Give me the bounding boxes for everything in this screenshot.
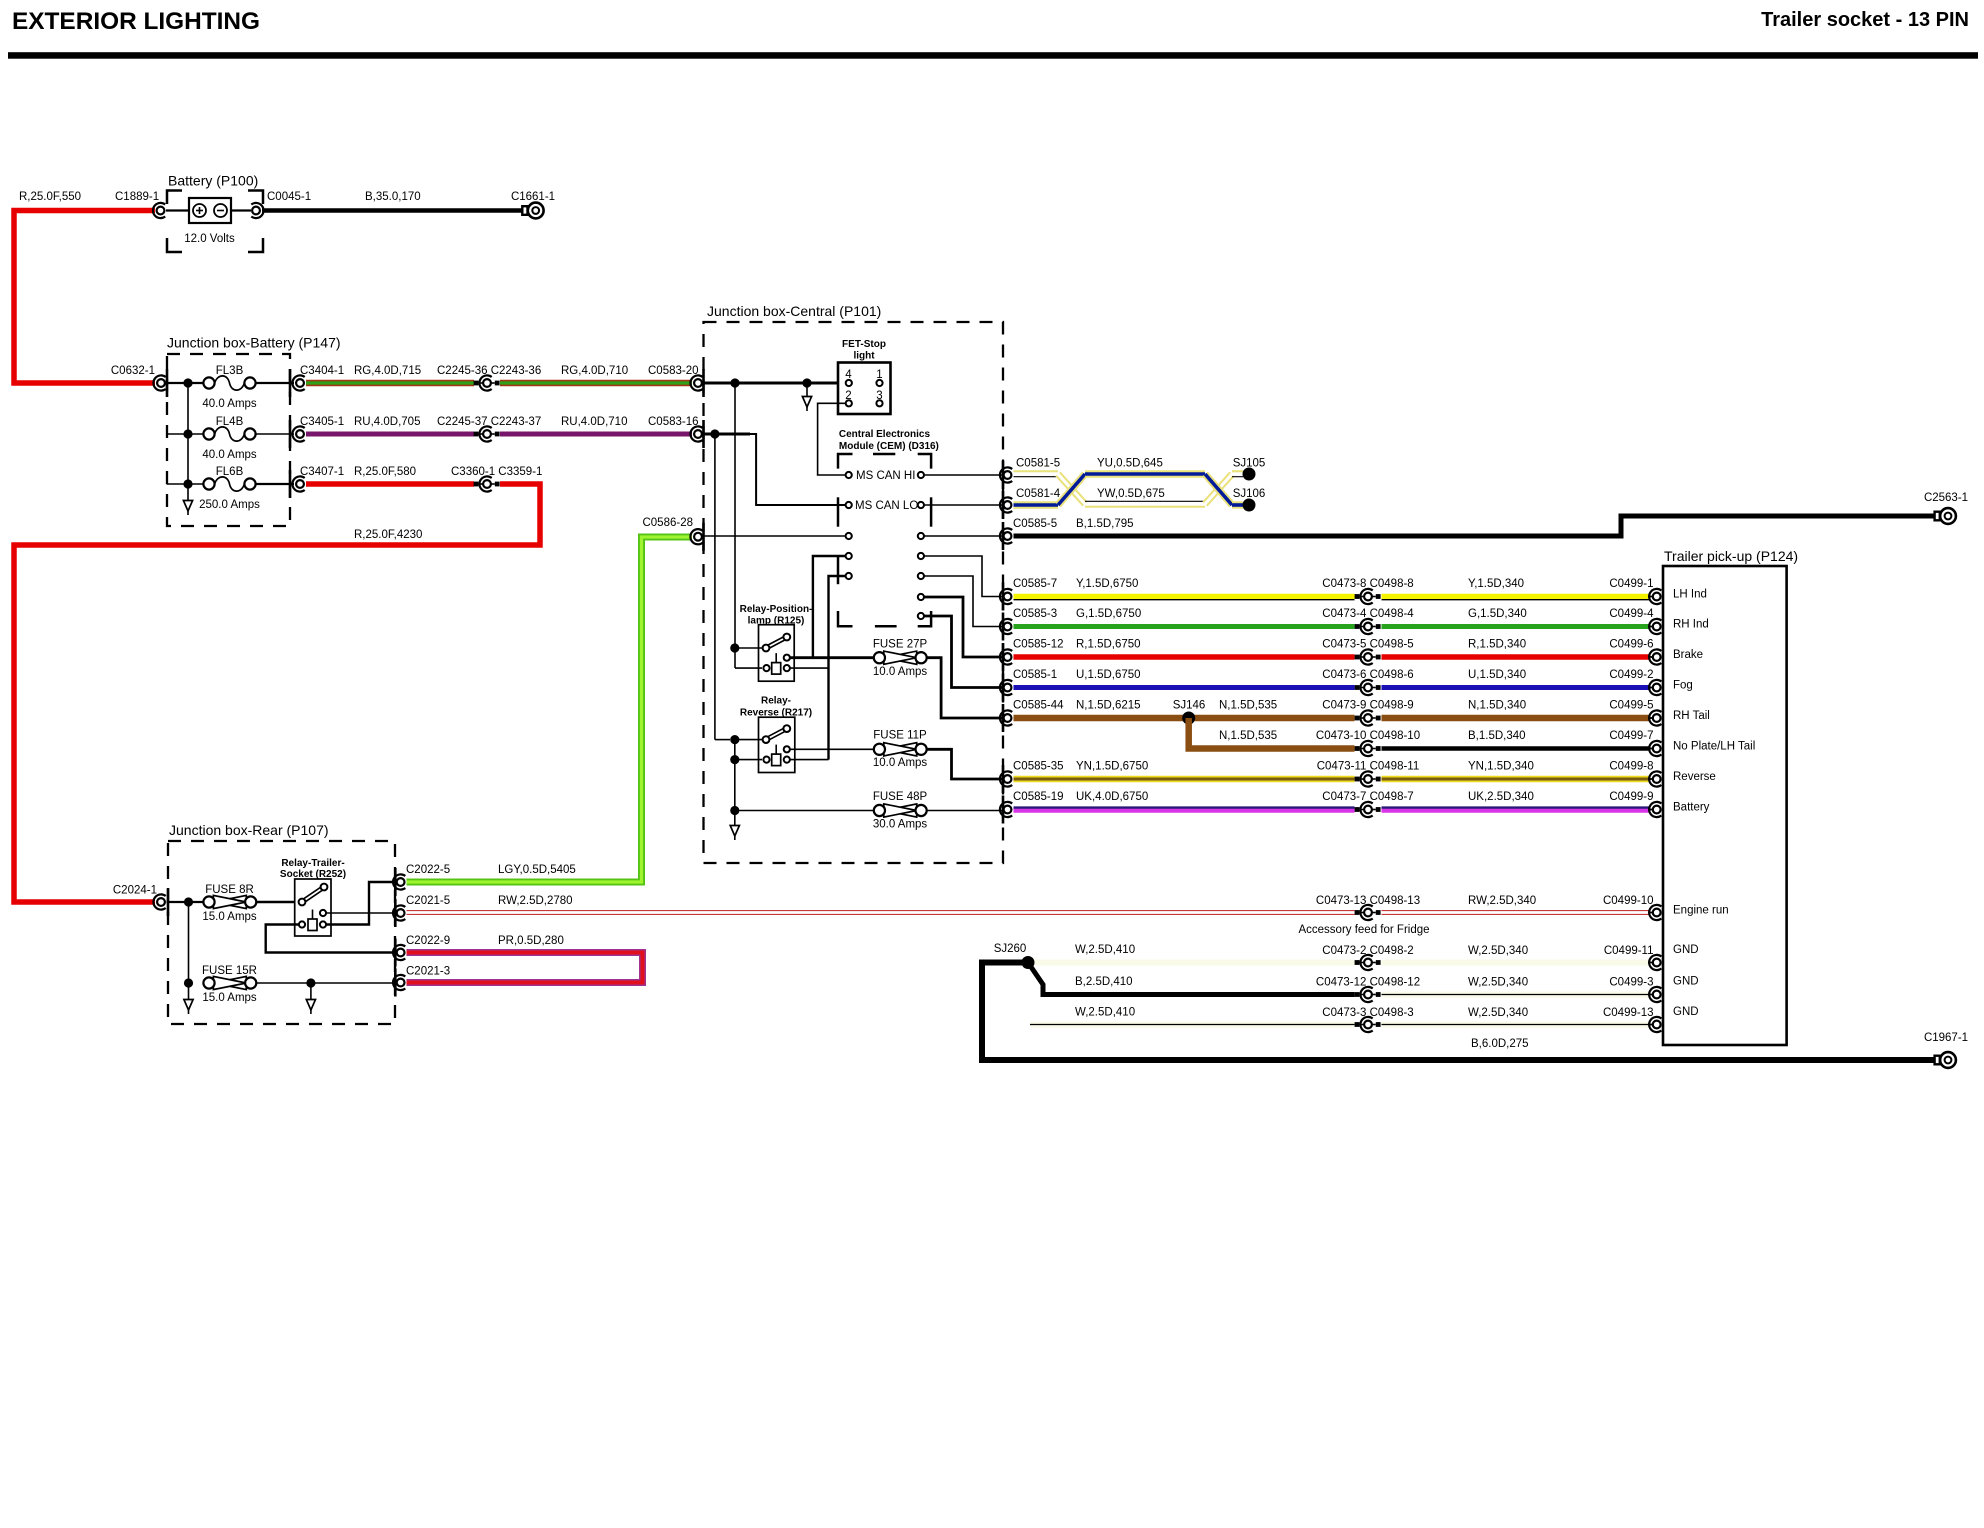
junction node RG bus A [730,378,739,387]
svg-text:R,1.5D,6750: R,1.5D,6750 [1076,639,1141,651]
CEM pin row 576 left [846,573,852,579]
svg-text:C3404-1: C3404-1 [300,365,344,377]
svg-text:Battery (P100): Battery (P100) [168,173,258,189]
svg-text:N,1.5D,535: N,1.5D,535 [1219,730,1277,742]
svg-text:C1967-1: C1967-1 [1924,1032,1968,1044]
wire C0632-1 to bus [167,382,204,384]
svg-text:Junction box-Central (P101): Junction box-Central (P101) [707,303,881,319]
svg-text:YN,1.5D,340: YN,1.5D,340 [1468,761,1534,773]
svg-text:G,1.5D,6750: G,1.5D,6750 [1076,608,1141,620]
wire R125 coil left to bus [735,667,762,669]
svg-text:Module (CEM) (D316): Module (CEM) (D316) [839,441,939,452]
fusible link FL4B 40 Amps [215,427,245,441]
svg-text:Y,1.5D,6750: Y,1.5D,6750 [1076,578,1138,590]
svg-text:RH Ind: RH Ind [1673,619,1709,631]
svg-text:LH Ind: LH Ind [1673,589,1707,601]
junction node FUSE 48P feed [730,806,739,815]
CEM pin MS CAN HI left [846,472,852,478]
junction box-Battery P147 dashed outline [167,354,290,526]
svg-text:C0499-4: C0499-4 [1609,608,1654,620]
svg-text:C0585-5: C0585-5 [1013,518,1057,530]
svg-text:C0499-2: C0499-2 [1609,669,1653,681]
wire to R125 common [735,647,763,649]
ring connector C2563-1 [1935,512,1940,521]
wire FUSE 48P to C0585-19 UK [927,810,1002,812]
svg-text:C0585-19: C0585-19 [1013,791,1064,803]
svg-text:C0499-5: C0499-5 [1609,700,1653,712]
wire R217 output to FUSE 11P [790,748,874,750]
wire RG,4.0D,715 [306,380,474,387]
P101 vertical feed lower [734,740,736,811]
ring connector C1967-1 [1935,1056,1940,1065]
CEM pin B row right [918,533,924,539]
ring connector C1661-1 [522,206,527,215]
junction node at FL4B [183,429,192,438]
svg-text:Relay-Trailer-: Relay-Trailer- [281,858,344,869]
svg-text:Trailer pick-up (P124): Trailer pick-up (P124) [1664,548,1798,564]
svg-text:PR,0.5D,280: PR,0.5D,280 [498,935,564,947]
wire MS CAN HI to C0581-5 [924,474,1002,476]
CEM pin MS CAN LO left [846,502,852,508]
svg-text:R,25.0F,4230: R,25.0F,4230 [354,529,422,541]
svg-text:C0585-12: C0585-12 [1013,639,1064,651]
svg-text:GND: GND [1673,1006,1699,1018]
wire R125 coil right to return bus [790,667,829,669]
junction box-Rear P107 dashed outline [168,841,395,1024]
wire FUSE 11P to C0585-35 YN [927,749,1002,779]
wire FUSE 8R to relay R252 [256,901,298,903]
FL6B output stub [256,483,295,485]
svg-text:N,1.5D,6215: N,1.5D,6215 [1076,700,1141,712]
junction box-Central P101 dashed outline [704,322,1004,863]
svg-text:FUSE 8R: FUSE 8R [205,884,254,896]
svg-text:No Plate/LH Tail: No Plate/LH Tail [1673,741,1755,753]
svg-text:R,25.0F,580: R,25.0F,580 [354,466,416,478]
relay R217 box [759,717,795,772]
svg-text:W,2.5D,410: W,2.5D,410 [1075,1007,1135,1019]
wire B,35.0,170 battery to ground stud [262,208,522,213]
wire RG bus into P101 [704,382,846,385]
svg-text:C2563-1: C2563-1 [1924,492,1968,504]
connector C0583-20 [694,379,702,387]
FET-Stop light box [838,363,891,415]
svg-text:C0632-1: C0632-1 [111,365,155,377]
junction node relay R217 feed [730,735,739,744]
svg-text:W,2.5D,410: W,2.5D,410 [1075,944,1135,956]
relay R252 box [295,879,331,936]
svg-text:C0585-1: C0585-1 [1013,669,1057,681]
svg-text:FL4B: FL4B [216,416,244,428]
svg-text:RW,2.5D,2780: RW,2.5D,2780 [498,895,573,907]
wire FET pin2 to MS CAN HI [818,403,846,475]
CEM pin row 576 right [918,573,924,579]
junction node ground tap [306,978,315,987]
svg-text:C1661-1: C1661-1 [511,191,555,203]
svg-text:B,1.5D,340: B,1.5D,340 [1468,730,1526,742]
svg-text:Fog: Fog [1673,680,1693,692]
svg-text:SJ146: SJ146 [1173,700,1206,712]
svg-text:C0499-13: C0499-13 [1603,1007,1654,1019]
svg-text:FUSE 27P: FUSE 27P [873,639,928,651]
svg-text:C0499-11: C0499-11 [1604,945,1654,957]
wire to R217 common [735,739,763,741]
svg-text:10.0 Amps: 10.0 Amps [873,757,928,769]
svg-text:light: light [853,351,875,362]
svg-text:FL3B: FL3B [216,365,244,377]
svg-text:EXTERIOR LIGHTING: EXTERIOR LIGHTING [12,8,260,35]
svg-text:U,1.5D,340: U,1.5D,340 [1468,669,1526,681]
svg-text:B,2.5D,410: B,2.5D,410 [1075,976,1133,988]
svg-text:C1889-1: C1889-1 [115,191,159,203]
svg-text:Relay-Position-: Relay-Position- [740,604,813,615]
relay R252 coil pins [299,921,305,927]
svg-text:Engine run: Engine run [1673,905,1729,917]
svg-text:RU,4.0D,705: RU,4.0D,705 [354,416,420,428]
ground below P101 feed [734,811,736,815]
junction node FUSE 15R [184,978,193,987]
svg-text:Trailer socket - 13 PIN: Trailer socket - 13 PIN [1761,9,1969,31]
relay R217 lever [766,729,787,740]
svg-text:C2024-1: C2024-1 [113,885,157,897]
svg-text:B,1.5D,795: B,1.5D,795 [1076,518,1134,530]
CEM pin B row left [846,533,852,539]
svg-text:C0585-35: C0585-35 [1013,761,1064,773]
junction node P107 feed [184,897,193,906]
relay R217 output pin [784,746,790,752]
connector C0632-1 [157,379,165,387]
connector C2024-1 [157,898,165,906]
svg-text:UK,4.0D,6750: UK,4.0D,6750 [1076,791,1148,803]
svg-text:FL6B: FL6B [216,466,244,478]
svg-text:FET-Stop: FET-Stop [842,339,886,350]
svg-text:R,25.0F,550: R,25.0F,550 [19,191,81,203]
staircase wire to C0585-1 U [924,616,1002,688]
ground at FET feed [806,385,808,397]
wire R,25.0F,4230 long red feed to rear [14,484,540,902]
svg-text:C2021-3: C2021-3 [406,966,450,978]
wire FUSE 27P to C0585-44 N [927,658,1002,718]
P107 internal bus [188,902,190,983]
svg-text:RU,4.0D,710: RU,4.0D,710 [561,416,627,428]
ground below FUSE 8R bus [188,983,190,988]
CEM pin MS CAN HI right [918,472,924,478]
svg-text:YN,1.5D,6750: YN,1.5D,6750 [1076,761,1148,773]
svg-text:GND: GND [1673,976,1699,988]
svg-text:RG,4.0D,715: RG,4.0D,715 [354,365,421,377]
svg-text:RG,4.0D,710: RG,4.0D,710 [561,365,628,377]
connector C3404-1 [296,379,304,387]
svg-text:C0499-7: C0499-7 [1609,730,1653,742]
svg-text:C2022-9: C2022-9 [406,935,450,947]
svg-text:N,1.5D,535: N,1.5D,535 [1219,700,1277,712]
wire CEM 576 coil return bus [829,576,846,760]
svg-text:Junction box-Rear (P107): Junction box-Rear (P107) [169,822,329,838]
svg-text:SJ106: SJ106 [1233,488,1266,500]
FL3B output stub [256,382,295,384]
wire R252 coil to C2022-9 [266,925,395,953]
connector C1889-1 [157,207,165,215]
connector C3405-1 [296,430,304,438]
svg-text:Battery: Battery [1673,802,1710,814]
svg-text:C0583-20: C0583-20 [648,365,699,377]
relay R252 lever [302,887,324,902]
svg-text:RH Tail: RH Tail [1673,710,1710,722]
wire RU,4.0D,705 [306,432,474,437]
svg-text:C0581-5: C0581-5 [1016,458,1060,470]
header rule bar [8,52,1978,59]
ground in P147 [187,484,189,489]
svg-text:15.0 Amps: 15.0 Amps [202,911,257,923]
svg-text:40.0 Amps: 40.0 Amps [202,449,257,461]
svg-text:B,35.0,170: B,35.0,170 [365,191,421,203]
svg-text:C3407-1: C3407-1 [300,466,344,478]
junction node R217 coil [730,755,739,764]
svg-text:12.0 Volts: 12.0 Volts [184,233,235,245]
junction node RU [710,429,719,438]
svg-text:Accessory feed for Fridge: Accessory feed for Fridge [1298,924,1429,936]
fusible link FL3B 40 Amps [215,376,245,390]
svg-text:RW,2.5D,340: RW,2.5D,340 [1468,895,1536,907]
wire RG,4.0D,710 [500,380,692,387]
relay R125 output pin [784,655,790,661]
svg-text:GND: GND [1673,944,1699,956]
relay R252 output pin [320,910,326,916]
CEM pin row 556 left [846,553,852,559]
svg-text:10.0 Amps: 10.0 Amps [873,666,928,678]
svg-text:C0499-6: C0499-6 [1609,639,1653,651]
connector C3407-1 [296,480,304,488]
svg-text:SJ260: SJ260 [994,943,1027,955]
connector C0045-1 [231,209,251,211]
junction node relay R125 feed [730,643,739,652]
P101 vertical feed from RU [714,434,716,740]
svg-text:C0499-10: C0499-10 [1603,895,1654,907]
svg-text:C2022-5: C2022-5 [406,864,450,876]
relay R125 coil [775,653,777,663]
wire R217 coil right to return bus [790,759,829,761]
relay R125 box [759,625,795,682]
wire YU,0.5D,645 twisted [1014,501,1059,508]
svg-text:C0499-9: C0499-9 [1609,791,1653,803]
svg-text:Central Electronics: Central Electronics [839,429,931,440]
battery P100 symbol [189,198,231,223]
staircase wire to C0585-3 G [924,576,1002,627]
svg-text:C0585-44: C0585-44 [1013,700,1064,712]
wire RU into P101 [704,433,750,436]
svg-text:C0499-8: C0499-8 [1609,761,1653,773]
svg-text:B,6.0D,275: B,6.0D,275 [1471,1038,1529,1050]
staircase wire to C0585-12 R [924,597,1002,657]
connector C0583-16 [694,430,702,438]
svg-text:Relay-: Relay- [761,696,791,707]
svg-text:250.0 Amps: 250.0 Amps [199,499,260,511]
svg-text:W,2.5D,340: W,2.5D,340 [1468,977,1528,989]
wire CEM to C0585-5 [924,535,1002,537]
wire R217 coil left to bus [735,759,762,761]
P101 vertical feed from RG bus [734,383,736,668]
svg-text:C3405-1: C3405-1 [300,416,344,428]
relay R125 lever [766,637,787,648]
svg-text:C0585-3: C0585-3 [1013,608,1057,620]
box edge connector ticks [166,369,169,397]
wire RU,4.0D,710 [500,432,692,437]
svg-text:YU,0.5D,645: YU,0.5D,645 [1097,458,1163,470]
svg-text:C2021-5: C2021-5 [406,895,450,907]
P147 internal bus wire [187,383,189,484]
wire R252 output to C2021-5 [326,912,395,914]
wire B,1.5D,795 to C2563-1 [1014,516,1936,536]
wire C2024-1 to FUSE 8R [167,901,204,903]
svg-text:MS CAN LO: MS CAN LO [855,500,918,512]
svg-text:30.0 Amps: 30.0 Amps [873,819,928,831]
svg-text:N,1.5D,340: N,1.5D,340 [1468,700,1526,712]
junction node RG bus B [802,378,811,387]
svg-text:W,2.5D,340: W,2.5D,340 [1468,1007,1528,1019]
wire R252 to C2022-5 [326,882,395,925]
svg-text:C0585-7: C0585-7 [1013,578,1057,590]
wire CEM 556 to fuse 27P feed [813,556,846,658]
wire R,25.0F,550 battery feed red [14,211,155,384]
relay R217 coil [775,745,777,755]
CEM pin MS CAN LO right [918,502,924,508]
svg-text:FUSE 15R: FUSE 15R [202,965,257,977]
battery P100 corner brackets [167,191,182,205]
svg-text:C0499-1: C0499-1 [1609,578,1653,590]
svg-text:40.0 Amps: 40.0 Amps [202,398,257,410]
svg-text:C0583-16: C0583-16 [648,416,699,428]
wire MS CAN LO to C0581-4 [924,504,1002,506]
svg-text:C0045-1: C0045-1 [267,191,311,203]
svg-text:Junction box-Battery (P147): Junction box-Battery (P147) [167,335,341,351]
svg-text:R,1.5D,340: R,1.5D,340 [1468,639,1526,651]
svg-text:C0581-4: C0581-4 [1016,488,1061,500]
relay R125 coil pins [763,665,769,671]
fusible link FL6B 250 Amps [215,477,245,491]
wire FUSE 15R to C2021-3 [256,982,395,984]
svg-text:Reverse: Reverse [1673,771,1716,783]
svg-text:YW,0.5D,675: YW,0.5D,675 [1097,488,1165,500]
CEM pin row 597 right [918,594,924,600]
svg-text:C3360-1 C3359-1: C3360-1 C3359-1 [451,466,542,478]
relay R252 coil [312,910,314,920]
svg-text:C0499-3: C0499-3 [1609,977,1653,989]
wire C0586-28 to CEM pin [704,535,846,537]
svg-text:15.0 Amps: 15.0 Amps [202,992,257,1004]
wire R125 output to FUSE 27P [790,656,874,659]
ground after FUSE 15R [310,983,312,988]
wire YW,0.5D,675 twisted [1014,470,1059,472]
FL4B output stub [256,433,295,435]
svg-text:FUSE 11P: FUSE 11P [873,730,927,742]
svg-text:Y,1.5D,340: Y,1.5D,340 [1468,578,1524,590]
svg-text:Brake: Brake [1673,649,1703,661]
CEM pin row 556 right [918,553,924,559]
svg-text:UK,2.5D,340: UK,2.5D,340 [1468,791,1534,803]
junction node at FL6B [183,479,192,488]
svg-text:U,1.5D,6750: U,1.5D,6750 [1076,669,1141,681]
staircase wire to C0585-7 Y [924,556,1002,597]
relay R217 coil pins [763,757,769,763]
wire feed to FUSE 48P [735,810,874,812]
svg-text:LGY,0.5D,5405: LGY,0.5D,5405 [498,864,576,876]
junction node at FL3B [183,378,192,387]
wire RU feed to MS CAN LO [715,434,846,505]
svg-text:G,1.5D,340: G,1.5D,340 [1468,608,1527,620]
svg-text:MS CAN HI: MS CAN HI [856,470,915,482]
svg-text:C0586-28: C0586-28 [642,517,693,529]
CEM pin row 616 right [918,613,924,619]
wire R,25.0F,580 [306,481,474,487]
svg-text:W,2.5D,340: W,2.5D,340 [1468,945,1528,957]
trailer pick-up P124 box [1663,566,1787,1045]
CEM dashed body [838,454,853,469]
svg-text:FUSE 48P: FUSE 48P [873,791,928,803]
